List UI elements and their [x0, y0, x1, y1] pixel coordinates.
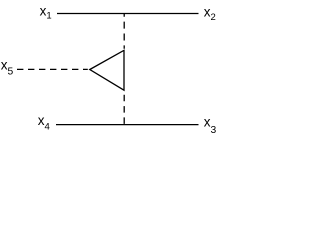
- wire top line x1-x2: [57, 13, 199, 15]
- svg-text:x3: x3: [204, 115, 217, 136]
- wire dashed vertical upper segment: [123, 14, 125, 49]
- wire dashed vertical lower segment: [123, 90, 125, 124]
- svg-text:x4: x4: [38, 113, 50, 132]
- amplifier triangle: [90, 50, 124, 90]
- svg-text:x2: x2: [204, 4, 216, 23]
- wire dashed horizontal from x5: [17, 68, 88, 70]
- svg-text:x1: x1: [40, 4, 52, 22]
- wire bottom line x4-x3: [56, 124, 199, 126]
- svg-text:x5: x5: [1, 57, 14, 77]
